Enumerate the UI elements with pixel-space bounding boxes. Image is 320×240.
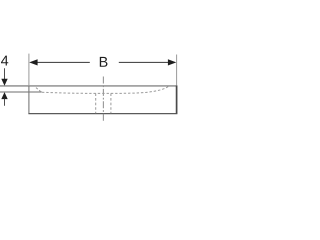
dimension label B [100,57,108,67]
dimension label 4 [1,56,8,66]
B extension line right [176,55,178,86]
hidden drain line right [110,93,112,113]
hidden bowl floor curve [42,86,169,93]
center line [102,77,104,123]
body left edge [28,86,30,114]
B dimension line right segment [119,61,169,63]
body bottom edge [28,113,177,115]
dim 4 leader line (above) [4,68,6,80]
dim 4 arrow down [1,79,7,86]
dim 4 arrow up [1,92,7,99]
body right edge [176,85,178,113]
top surface line with left extension [0,85,177,87]
B arrow left [29,59,37,65]
hidden inner wall left slope [35,86,41,91]
B dimension line left segment [37,61,90,63]
B extension line left [28,54,30,86]
rim underside line with left extension [0,91,42,93]
hidden drain line left [95,93,97,113]
B arrow right [168,59,176,65]
dim 4 leader tail (below) [4,99,6,106]
